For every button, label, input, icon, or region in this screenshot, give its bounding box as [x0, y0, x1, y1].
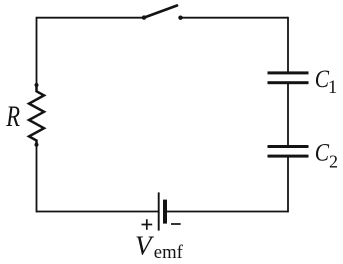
capacitor C1 top plate: [268, 71, 309, 74]
svg-text:R: R: [5, 100, 20, 133]
switch contact dot right: [178, 16, 182, 20]
battery Vemf short (-) plate: [163, 200, 167, 224]
resistor node dot top: [35, 83, 39, 87]
svg-text:1: 1: [328, 78, 337, 98]
wire top-right (switch to right rail): [181, 17, 289, 19]
resistor node dot bottom: [35, 143, 39, 147]
switch contact dot left: [142, 15, 146, 19]
wire left rail lower: [36, 145, 38, 212]
svg-text:emf: emf: [154, 242, 184, 263]
wire top-left (switch to left rail): [37, 17, 145, 19]
wire between C1 and C2: [287, 84, 289, 146]
wire bottom-right (battery to right rail): [167, 211, 289, 213]
wire right rail lower: [287, 157, 289, 212]
resistor R zigzag: [29, 85, 44, 145]
wire bottom-left (left rail to battery): [37, 211, 159, 213]
capacitor C2 top plate: [268, 145, 309, 148]
wire right rail upper: [287, 17, 289, 72]
capacitor C1 bottom plate: [268, 81, 309, 84]
battery minus sign: [171, 223, 181, 225]
svg-text:C: C: [315, 139, 330, 167]
svg-text:V: V: [135, 231, 155, 261]
battery Vemf long (+) plate: [158, 192, 160, 230]
switch S (open) lever: [144, 6, 177, 18]
svg-text:2: 2: [329, 152, 338, 172]
capacitor C2 bottom plate: [268, 155, 309, 158]
battery plus sign: [142, 219, 153, 230]
wire left rail upper: [36, 17, 38, 85]
